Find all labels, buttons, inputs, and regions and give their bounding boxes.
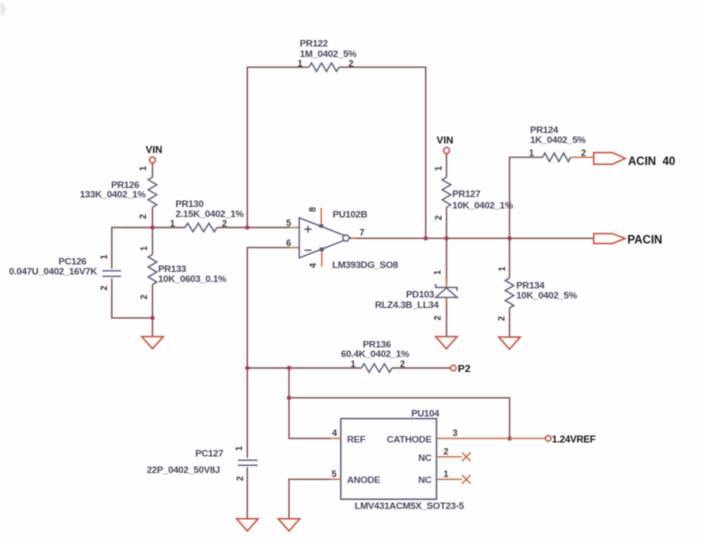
svg-text:5: 5 xyxy=(286,218,291,228)
svg-text:1: 1 xyxy=(138,166,148,171)
PU104 pin 4 stub xyxy=(331,437,341,439)
svg-text:2: 2 xyxy=(348,58,353,68)
svg-text:PACIN: PACIN xyxy=(627,234,662,246)
svg-text:22P_0402_50V8J: 22P_0402_50V8J xyxy=(147,465,220,476)
svg-text:1.24VREF: 1.24VREF xyxy=(552,435,596,446)
PU104 pin 2 stub xyxy=(437,456,462,458)
ground below ANODE xyxy=(278,519,300,531)
wire pin6 input line xyxy=(247,248,290,368)
power VIN right xyxy=(437,135,454,153)
svg-text:1: 1 xyxy=(433,270,443,275)
svg-text:10K_0402_5%: 10K_0402_5% xyxy=(516,290,577,301)
svg-text:8: 8 xyxy=(307,207,317,212)
power VIN left xyxy=(146,145,163,163)
svg-text:1: 1 xyxy=(234,446,244,451)
wire ACIN branch up xyxy=(510,157,543,238)
svg-text:2: 2 xyxy=(497,316,507,321)
svg-text:2: 2 xyxy=(138,214,148,219)
wire PR136 line xyxy=(247,367,450,369)
wire VIN left to PR126 xyxy=(152,163,154,228)
svg-text:0.047U_0402_16V7K: 0.047U_0402_16V7K xyxy=(9,266,97,277)
svg-text:NC: NC xyxy=(418,453,432,464)
wire feedback top loop left xyxy=(247,67,309,227)
wire REF-CATHODE feedback xyxy=(289,398,510,439)
resistor PR133 xyxy=(139,246,227,300)
svg-text:10K_0402_1%: 10K_0402_1% xyxy=(452,200,513,211)
svg-text:ACIN 40: ACIN 40 xyxy=(628,156,675,168)
svg-text:133K_0402_1%: 133K_0402_1% xyxy=(80,190,146,201)
terminal 1.24VREF xyxy=(546,435,596,446)
svg-text:2: 2 xyxy=(443,446,448,456)
PU104 pin 1 no-connect X xyxy=(462,475,471,484)
svg-text:4: 4 xyxy=(308,263,318,268)
svg-text:7: 7 xyxy=(359,228,364,238)
PU102B pin 6 stub xyxy=(290,247,299,249)
corner smudge xyxy=(0,2,6,16)
svg-text:3: 3 xyxy=(452,428,457,438)
svg-text:2: 2 xyxy=(222,218,227,228)
svg-text:ANODE: ANODE xyxy=(347,475,380,486)
PU102B pin 5 stub xyxy=(290,227,299,229)
node REF branch junction xyxy=(287,366,291,370)
wire feedback top loop right xyxy=(339,67,426,238)
wire PR133 branch xyxy=(152,228,154,337)
svg-text:2: 2 xyxy=(139,294,149,299)
svg-text:2: 2 xyxy=(433,315,443,320)
svg-text:1K_0402_5%: 1K_0402_5% xyxy=(530,135,586,146)
svg-text:PC127: PC127 xyxy=(195,448,223,459)
zener diode PD103 xyxy=(375,270,457,321)
wire PC126 branch xyxy=(112,228,153,318)
svg-text:NC: NC xyxy=(418,475,432,486)
node REF feedback junction xyxy=(287,396,291,400)
svg-text:LM393DG_SO8: LM393DG_SO8 xyxy=(332,260,398,271)
svg-text:PD103: PD103 xyxy=(406,289,434,300)
svg-text:1: 1 xyxy=(497,266,507,271)
PU102B pin 8 pad xyxy=(319,224,323,228)
wire ANODE to ground xyxy=(289,479,331,519)
PU104 pin 5 stub xyxy=(331,478,341,480)
ground below PR134 xyxy=(499,337,521,349)
svg-text:1: 1 xyxy=(297,59,302,69)
svg-text:1: 1 xyxy=(443,469,448,479)
PU102B minus sign xyxy=(305,249,312,251)
svg-text:1: 1 xyxy=(170,218,175,228)
svg-text:2: 2 xyxy=(581,148,586,158)
PU102B pin 7 stub xyxy=(349,237,356,239)
ground below PC127 xyxy=(237,519,259,531)
PU104 body xyxy=(341,419,437,500)
node PR126/PR130 junction xyxy=(150,225,154,229)
PU102B plus sign xyxy=(305,226,312,233)
PR124 pin2 wire stub xyxy=(571,156,594,158)
svg-text:PR122: PR122 xyxy=(300,39,328,50)
port ACIN 40 xyxy=(594,153,676,169)
wire VIN right to PR127 xyxy=(446,154,448,239)
resistor PR122 xyxy=(297,39,357,72)
node ACIN/PR134 junction xyxy=(507,236,511,240)
wire PC127 branch xyxy=(246,368,248,519)
PU104 pin 1 stub xyxy=(437,478,462,480)
op-amp U102B comparator xyxy=(286,207,398,271)
node PR136/pin6 junction xyxy=(245,366,249,370)
node PD103/PR127 junction xyxy=(444,236,448,240)
resistor PR124 xyxy=(529,125,594,162)
resistor PR127 xyxy=(434,166,514,220)
svg-text:2: 2 xyxy=(99,285,109,290)
svg-text:REF: REF xyxy=(347,434,366,445)
wire PR134 branch down xyxy=(509,238,511,337)
svg-text:10K_0603_0.1%: 10K_0603_0.1% xyxy=(158,274,227,285)
PU102B triangle xyxy=(299,218,350,258)
PU102B output bubble xyxy=(343,235,349,241)
wire PD103 branch xyxy=(446,238,448,336)
svg-text:1: 1 xyxy=(529,148,534,158)
terminal P2 xyxy=(451,363,471,375)
PU102B pin 4 wire xyxy=(321,250,323,267)
wire comparator output to PACIN xyxy=(350,237,594,239)
svg-text:VIN: VIN xyxy=(437,135,454,146)
wire REF branch xyxy=(289,368,331,438)
svg-text:2: 2 xyxy=(434,215,444,220)
svg-text:1: 1 xyxy=(350,359,355,369)
svg-text:1: 1 xyxy=(434,166,444,171)
svg-text:RLZ4.3B_LL34: RLZ4.3B_LL34 xyxy=(375,300,440,311)
svg-text:PU104: PU104 xyxy=(411,408,440,419)
svg-text:4: 4 xyxy=(332,428,337,438)
svg-text:6: 6 xyxy=(286,238,291,248)
wire pin5 input line xyxy=(153,227,291,229)
capacitor PC127 xyxy=(147,446,258,481)
svg-text:PR127: PR127 xyxy=(452,189,480,200)
svg-text:CATHODE: CATHODE xyxy=(387,434,432,445)
svg-text:1: 1 xyxy=(99,254,109,259)
node pin5/feedback junction xyxy=(245,225,249,229)
node feedback/output junction xyxy=(424,236,428,240)
PU102B pin 8 wire xyxy=(320,208,322,226)
svg-text:1: 1 xyxy=(139,246,149,251)
svg-text:P2: P2 xyxy=(458,363,471,375)
resistor PR134 xyxy=(497,266,578,321)
PU104 pin 3 wire xyxy=(437,437,546,439)
ground below PR133 xyxy=(142,337,164,349)
svg-text:VIN: VIN xyxy=(146,145,163,156)
IC U104 shunt reference xyxy=(331,408,546,512)
PU104 pin 2 no-connect X xyxy=(462,453,471,462)
svg-text:PU102B: PU102B xyxy=(333,209,368,220)
node CATHODE junction xyxy=(507,436,511,440)
PU102B pin 4 pad xyxy=(320,247,324,251)
node PR133/PC126 junction xyxy=(150,316,154,320)
resistor PR126 xyxy=(80,166,157,219)
resistor PR130 xyxy=(170,199,244,232)
svg-text:LMV431ACM5X_SOT23-5: LMV431ACM5X_SOT23-5 xyxy=(355,501,465,512)
resistor PR136 xyxy=(341,340,410,373)
ground below PD103 xyxy=(436,337,458,349)
capacitor PC126 xyxy=(9,254,121,290)
svg-text:5: 5 xyxy=(331,469,336,479)
svg-text:2.15K_0402_1%: 2.15K_0402_1% xyxy=(176,209,245,220)
svg-text:2: 2 xyxy=(400,359,405,369)
port PACIN xyxy=(594,234,663,247)
svg-text:2: 2 xyxy=(235,476,245,481)
